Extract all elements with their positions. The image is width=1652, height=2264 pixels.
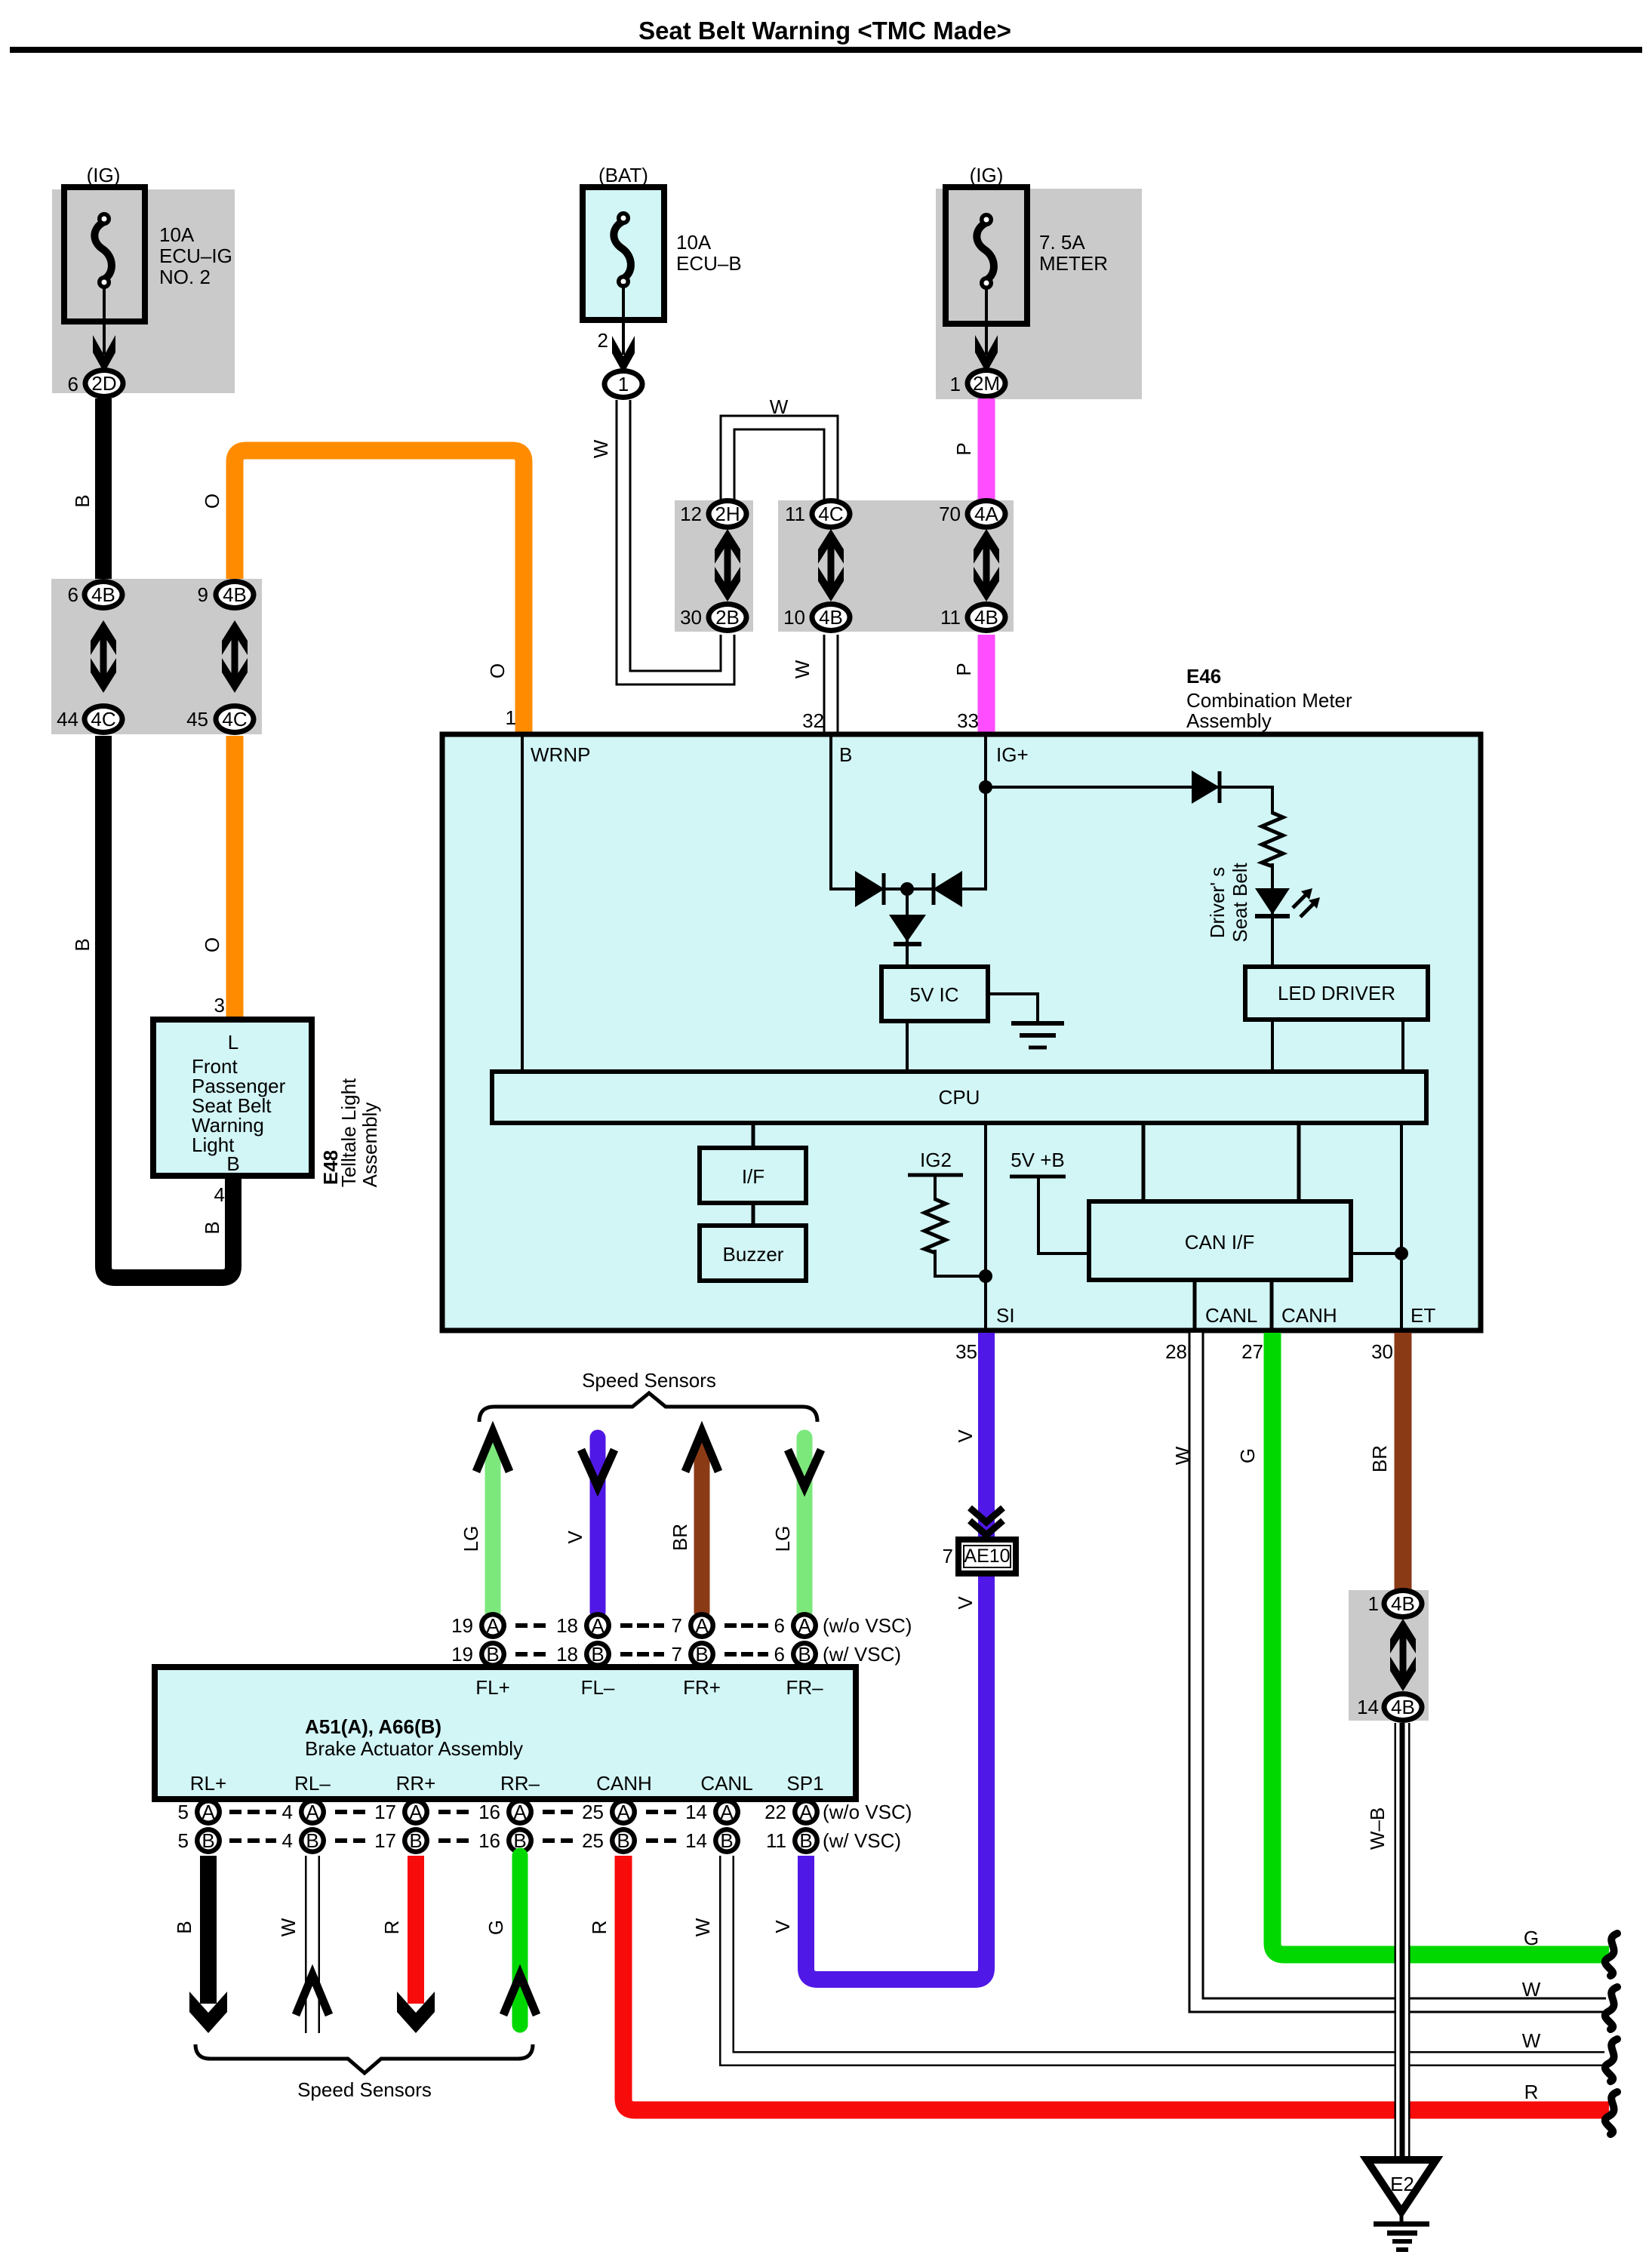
gray band connectors 4B/4C left (51, 579, 262, 734)
wire V from SI 35 down through AE10 to SP1 U-path (806, 1333, 986, 1979)
svg-text:3: 3 (214, 994, 225, 1017)
E46 Combination Meter Assembly box (442, 734, 1481, 1330)
svg-text:R: R (1524, 2081, 1539, 2103)
svg-text:B: B (173, 1921, 195, 1933)
svg-text:V: V (954, 1429, 977, 1443)
svg-text:32: 32 (802, 709, 824, 732)
fuse F2 10A ECU-B (583, 187, 664, 320)
connector AE10 pin 7 (943, 1540, 1016, 1573)
wire B internal (831, 737, 857, 889)
diode D1b (933, 871, 962, 907)
svg-text:5: 5 (178, 1801, 189, 1823)
connector 4C pin 45 (186, 703, 256, 735)
node ET junction (1395, 1247, 1408, 1260)
svg-text:12: 12 (680, 503, 702, 525)
svg-text:Buzzer: Buzzer (723, 1243, 784, 1266)
wire resistor to SI node (935, 1250, 986, 1276)
svg-text:W: W (589, 439, 612, 458)
junction arrows 4A-4B (974, 529, 999, 601)
svg-text:5V +B: 5V +B (1011, 1149, 1065, 1171)
svg-text:11: 11 (940, 606, 961, 629)
wire BR from pin 30 to 4B (1395, 1333, 1412, 1589)
svg-text:6: 6 (774, 1614, 785, 1637)
svg-text:R: R (588, 1921, 611, 1935)
svg-text:B: B (201, 1221, 223, 1234)
svg-text:LG: LG (460, 1526, 482, 1552)
fuse F1 10A ECU-IG NO.2 (64, 187, 145, 321)
svg-text:1: 1 (506, 706, 516, 729)
svg-text:BR: BR (1368, 1445, 1391, 1472)
diode D1a (855, 871, 884, 907)
fuse F3 7.5A METER (946, 187, 1027, 324)
5V+B supply bar (1010, 1175, 1066, 1179)
svg-text:(w/ VSC): (w/ VSC) (823, 1829, 901, 1852)
svg-text:2D: 2D (91, 372, 116, 395)
wire LED DRIVER to CPU left (1271, 1020, 1274, 1073)
svg-text:2M: 2M (973, 372, 1000, 395)
node IG+ junction (979, 780, 992, 794)
wire B from 4C-44 down to E48 loop (103, 736, 233, 1278)
svg-text:B: B (799, 1829, 812, 1852)
svg-text:I/F: I/F (742, 1165, 764, 1188)
IG2 supply bar (908, 1174, 963, 1177)
squiggle G end (1605, 1933, 1617, 1976)
wire B speed sensor RL+ (189, 1856, 227, 2033)
wire G from pin 27 to right edge (1272, 1333, 1609, 1955)
wire P from 4B-11 to pin 33 (978, 635, 995, 736)
svg-text:E46: E46 (1186, 665, 1221, 688)
svg-text:IG2: IG2 (920, 1149, 952, 1171)
svg-text:Speed Sensors: Speed Sensors (297, 2078, 432, 2101)
svg-text:V: V (954, 1596, 977, 1610)
svg-text:5V IC: 5V IC (909, 983, 958, 1006)
wire CPU to CAN I/F right (1297, 1123, 1301, 1203)
squiggle W1 end (1605, 1987, 1617, 2029)
svg-text:CPU: CPU (939, 1086, 980, 1109)
svg-text:10A: 10A (676, 231, 712, 254)
svg-text:Speed Sensors: Speed Sensors (582, 1369, 716, 1392)
svg-text:A: A (202, 1801, 215, 1823)
pin 22A (764, 1798, 820, 1826)
CPU box (492, 1072, 1426, 1123)
connector 2M pin 1 (950, 368, 1008, 399)
resistor R1 (1262, 813, 1283, 866)
pin 16B (478, 1827, 534, 1854)
pin 25A (582, 1798, 637, 1826)
zener diode D3 (889, 915, 926, 944)
svg-text:19: 19 (451, 1643, 473, 1666)
wire V speed sensor FL- (581, 1438, 614, 1612)
svg-text:FL+: FL+ (475, 1676, 510, 1699)
svg-text:(w/ VSC): (w/ VSC) (823, 1643, 901, 1666)
svg-text:ECU–B: ECU–B (676, 252, 742, 275)
wire W bridge 2H to 4C (728, 423, 831, 500)
I/F box (700, 1148, 806, 1203)
svg-text:LED DRIVER: LED DRIVER (1278, 982, 1395, 1004)
svg-text:Driver' s: Driver' s (1206, 867, 1229, 939)
svg-text:O: O (201, 494, 223, 509)
svg-text:19: 19 (451, 1614, 473, 1637)
svg-text:B: B (720, 1829, 733, 1852)
wire IG+ to diode D2 (986, 786, 1272, 789)
LED D4 (1255, 888, 1290, 916)
svg-text:4B: 4B (974, 606, 998, 629)
svg-text:P: P (952, 442, 975, 455)
svg-text:B: B (409, 1829, 422, 1852)
svg-text:E2: E2 (1390, 2173, 1414, 2195)
svg-text:4C: 4C (222, 708, 247, 731)
wire W from CANL 14B to right edge (727, 1856, 1604, 2059)
junction arrows 4B-4C right (222, 620, 248, 693)
svg-text:4B: 4B (223, 583, 247, 606)
svg-text:W: W (1171, 1446, 1194, 1465)
svg-text:6: 6 (68, 373, 78, 395)
svg-text:A: A (799, 1801, 813, 1823)
Brake Actuator Assembly box (155, 1667, 856, 1799)
svg-text:BR: BR (669, 1524, 691, 1551)
svg-text:B: B (202, 1829, 214, 1852)
svg-text:RL+: RL+ (190, 1772, 226, 1795)
svg-text:A: A (513, 1801, 527, 1823)
inline connector arrows into AE10 (970, 1508, 1003, 1535)
wire R from CANH 25B to right edge (623, 1856, 1609, 2110)
svg-text:1: 1 (618, 373, 629, 395)
svg-text:G: G (1236, 1448, 1259, 1463)
wire B from 2D to 4B (95, 398, 112, 581)
wire G speed sensor RR- (503, 1856, 537, 2025)
svg-text:CANH: CANH (1281, 1304, 1337, 1327)
svg-text:B: B (486, 1643, 499, 1666)
svg-text:25: 25 (582, 1829, 604, 1852)
wire LED DRIVER to CPU right (1401, 1020, 1404, 1073)
svg-text:CANL: CANL (700, 1772, 752, 1795)
svg-text:Seat Belt: Seat Belt (1229, 862, 1251, 942)
brace speed sensors bottom (195, 2044, 533, 2073)
squiggle W2 end (1605, 2039, 1617, 2081)
svg-text:14: 14 (1357, 1696, 1379, 1718)
connector 4B pin 14 (1357, 1691, 1424, 1723)
svg-text:27: 27 (1241, 1340, 1263, 1363)
svg-text:30: 30 (680, 606, 702, 629)
svg-text:4: 4 (282, 1801, 293, 1823)
wire R speed sensor RR+ (397, 1856, 435, 2033)
pin 7A (672, 1612, 715, 1639)
wire I/F to Buzzer (752, 1203, 755, 1227)
svg-text:4B: 4B (91, 583, 115, 606)
svg-text:2H: 2H (715, 503, 740, 525)
pin 4B (282, 1827, 326, 1854)
svg-text:9: 9 (198, 583, 208, 606)
svg-text:W: W (691, 1918, 714, 1936)
svg-text:B: B (591, 1643, 604, 1666)
pin 25B (582, 1827, 637, 1854)
connector 1 (602, 368, 645, 400)
wire IG2 to resistor (934, 1175, 937, 1201)
pin 14B (685, 1827, 740, 1854)
svg-text:A51(A), A66(B): A51(A), A66(B) (305, 1715, 441, 1738)
svg-text:B: B (71, 938, 94, 951)
svg-text:RR+: RR+ (396, 1772, 436, 1795)
squiggle R end (1605, 2092, 1617, 2134)
svg-text:Assembly: Assembly (358, 1103, 381, 1188)
junction arrows 4B-4C left (91, 620, 116, 693)
svg-text:A: A (720, 1801, 734, 1823)
wire diode row (857, 887, 986, 891)
svg-text:17: 17 (374, 1829, 396, 1852)
svg-text:P: P (952, 663, 975, 675)
svg-text:A: A (798, 1614, 811, 1637)
svg-text:18: 18 (556, 1614, 578, 1637)
wire W from pin 28 to right edge (1196, 1333, 1606, 2005)
svg-text:FR+: FR+ (683, 1676, 721, 1699)
wire W from BAT oval1 to 2B (623, 400, 728, 678)
svg-text:O: O (486, 663, 509, 678)
pin line CANH (1270, 1280, 1274, 1330)
svg-text:10A: 10A (159, 223, 195, 246)
resistor R2 IG2 (924, 1199, 946, 1253)
svg-text:6: 6 (774, 1643, 785, 1666)
svg-text:B: B (695, 1643, 708, 1666)
svg-text:A: A (591, 1614, 605, 1637)
wire zener to 5V IC (906, 889, 909, 968)
svg-text:Combination Meter: Combination Meter (1186, 689, 1352, 712)
svg-text:25: 25 (582, 1801, 604, 1823)
svg-text:W: W (770, 395, 789, 418)
svg-text:4B: 4B (819, 606, 843, 629)
svg-text:Assembly: Assembly (1186, 709, 1272, 732)
pin 6B (774, 1641, 818, 1668)
svg-text:(IG): (IG) (970, 164, 1004, 186)
svg-text:CAN I/F: CAN I/F (1185, 1231, 1254, 1254)
svg-text:17: 17 (374, 1801, 396, 1823)
svg-text:(w/o VSC): (w/o VSC) (823, 1614, 912, 1637)
svg-text:7: 7 (943, 1545, 953, 1567)
connector 4C pin 11 (785, 498, 853, 530)
LED light arrows (1293, 888, 1320, 917)
svg-text:METER: METER (1039, 252, 1108, 275)
svg-text:A: A (486, 1614, 500, 1637)
svg-text:G: G (485, 1920, 507, 1935)
svg-text:W–B: W–B (1366, 1807, 1389, 1850)
wire CPU to I/F (752, 1123, 755, 1149)
svg-text:10: 10 (783, 606, 805, 629)
svg-text:14: 14 (685, 1801, 707, 1823)
E48 Telltale Light Assembly box (153, 1020, 312, 1176)
svg-text:30: 30 (1371, 1340, 1393, 1363)
svg-text:7: 7 (672, 1643, 682, 1666)
pin 4A (282, 1798, 326, 1826)
connector 4B pin 10 (783, 601, 852, 633)
svg-text:W: W (791, 660, 814, 678)
wire CAN I/F to ET (1351, 1252, 1401, 1255)
wire W speed sensor RL- (296, 1856, 329, 2033)
ground 5V IC (1011, 1023, 1064, 1047)
svg-text:WRNP: WRNP (531, 743, 590, 766)
svg-text:33: 33 (957, 709, 979, 732)
node SI junction (979, 1269, 992, 1283)
svg-text:A: A (695, 1614, 709, 1637)
wire O from 4B-9 up over to E46 pin1 (235, 451, 524, 736)
wire W-B from 4B-14 to E2 (1395, 1723, 1411, 2160)
wire SI vertical (984, 1123, 987, 1330)
gray band connector 4B right (1349, 1590, 1429, 1721)
pin 14A (685, 1798, 740, 1826)
connector 2D pin 6 (68, 368, 126, 399)
svg-text:W: W (1522, 2029, 1541, 2052)
svg-text:B: B (306, 1829, 318, 1852)
svg-text:1: 1 (1368, 1592, 1379, 1615)
svg-text:B: B (71, 494, 94, 507)
pin 17A (374, 1798, 429, 1826)
diode D2 (1192, 771, 1220, 804)
svg-text:B: B (617, 1829, 629, 1852)
wire D2 to resistor corner (1220, 787, 1272, 814)
svg-text:2: 2 (598, 329, 608, 352)
svg-text:45: 45 (186, 708, 208, 731)
svg-text:ECU–IG: ECU–IG (159, 245, 232, 267)
svg-text:LG: LG (771, 1526, 794, 1552)
dashes top row B (515, 1652, 768, 1656)
wire LG speed sensor FR- (788, 1438, 821, 1612)
wire 5V+B to CAN I/F (1038, 1177, 1091, 1254)
svg-text:(BAT): (BAT) (598, 164, 648, 186)
svg-text:4A: 4A (974, 503, 998, 525)
pin circles row A top (451, 1612, 506, 1639)
junction arrows 2H-2B (715, 529, 740, 601)
gray block ECU-IG fuse area (52, 189, 235, 393)
pin line CANL (1193, 1280, 1197, 1330)
wire W from 4B-10 to pin 32 (823, 635, 839, 736)
svg-text:A: A (409, 1801, 423, 1823)
connector 4B pin 9 (198, 579, 257, 611)
5V IC box (881, 967, 988, 1021)
LED DRIVER box (1245, 967, 1428, 1020)
wire fuse F3 to 2M with arrow (975, 287, 998, 373)
svg-text:4: 4 (282, 1829, 293, 1852)
dashes top row A (515, 1623, 768, 1628)
svg-text:4B: 4B (1391, 1696, 1415, 1718)
svg-text:A: A (306, 1801, 319, 1823)
svg-text:(IG): (IG) (87, 164, 121, 186)
svg-text:2B: 2B (715, 606, 740, 629)
svg-text:35: 35 (955, 1340, 977, 1363)
svg-text:R: R (380, 1921, 403, 1935)
header rule (10, 47, 1642, 53)
svg-text:FR–: FR– (786, 1676, 823, 1699)
pin 5A (178, 1798, 222, 1826)
svg-text:11: 11 (766, 1829, 786, 1852)
svg-text:11: 11 (785, 503, 805, 525)
connector 2H pin 12 (680, 498, 749, 530)
wire O from 4C-45 down to E48 (226, 736, 244, 1017)
ground E2 (1367, 2160, 1436, 2250)
svg-text:Seat Belt Warning <TMC Made>: Seat Belt Warning <TMC Made> (638, 17, 1011, 45)
svg-text:CANH: CANH (596, 1772, 652, 1795)
wire CPU to CAN I/F left (1142, 1123, 1146, 1203)
svg-text:4C: 4C (818, 503, 843, 525)
svg-text:NO. 2: NO. 2 (159, 266, 211, 288)
svg-text:7. 5A: 7. 5A (1039, 231, 1085, 254)
gray block METER fuse area (936, 189, 1142, 399)
svg-text:W: W (1522, 1978, 1541, 2001)
CAN I/F box (1089, 1201, 1351, 1280)
connector 4B pin 1 (1368, 1588, 1425, 1620)
pin 18B (556, 1641, 611, 1668)
pin 17B (374, 1827, 429, 1854)
svg-text:28: 28 (1165, 1340, 1187, 1363)
pin 11B (766, 1827, 820, 1854)
svg-text:L: L (228, 1031, 238, 1054)
gray band connectors 2H/2B (675, 500, 753, 632)
svg-text:22: 22 (764, 1801, 786, 1823)
svg-text:4: 4 (214, 1183, 225, 1206)
svg-text:ET: ET (1411, 1304, 1435, 1327)
svg-text:IG+: IG+ (996, 743, 1029, 766)
svg-text:6: 6 (68, 583, 78, 606)
svg-text:18: 18 (556, 1643, 578, 1666)
svg-text:G: G (1524, 1927, 1539, 1949)
pin 6A (774, 1612, 818, 1639)
dashes bottom row B (229, 1838, 676, 1843)
wire IG+ internal (984, 737, 987, 891)
svg-text:B: B (839, 743, 852, 766)
junction arrows 4B-4B (1390, 1619, 1416, 1691)
connector 4B pin 6 (68, 579, 125, 611)
wire LG speed sensor FL+ (476, 1432, 509, 1612)
connector 4B pin 11 (940, 601, 1008, 633)
pin 19B (451, 1641, 506, 1668)
brace speed sensors top (479, 1393, 817, 1422)
node diode junction (900, 882, 914, 896)
svg-text:V: V (771, 1920, 794, 1933)
svg-text:16: 16 (478, 1829, 500, 1852)
svg-text:4C: 4C (91, 708, 115, 731)
wire fuse F2 pin 2 to oval 1 (598, 284, 635, 374)
pin 18A (556, 1612, 611, 1639)
svg-text:A: A (617, 1801, 630, 1823)
wire ET vertical (1400, 1123, 1403, 1330)
pin 5B (178, 1827, 222, 1854)
svg-text:SP1: SP1 (786, 1772, 823, 1795)
dashes bottom row A (229, 1810, 676, 1814)
svg-text:Brake Actuator Assembly: Brake Actuator Assembly (305, 1737, 523, 1760)
wire fuse F1 to 2D with arrow (93, 285, 115, 373)
wire BR speed sensor FR+ (685, 1432, 718, 1612)
gray band connectors 4C/4B 4A/4B (778, 500, 1014, 632)
svg-text:Telltale Light: Telltale Light (337, 1078, 360, 1187)
svg-text:B: B (226, 1152, 239, 1175)
pin 16A (478, 1798, 534, 1826)
svg-text:B: B (798, 1643, 811, 1666)
svg-text:5: 5 (178, 1829, 189, 1852)
Buzzer box (700, 1226, 806, 1281)
pin 7B (672, 1641, 715, 1668)
svg-text:CANL: CANL (1205, 1304, 1257, 1327)
svg-text:FL–: FL– (581, 1676, 615, 1699)
svg-text:RR–: RR– (500, 1772, 540, 1795)
svg-text:SI: SI (996, 1304, 1015, 1327)
svg-text:O: O (201, 937, 223, 952)
wire WRNP internal (521, 737, 524, 1073)
svg-text:RL–: RL– (294, 1772, 331, 1795)
svg-text:V: V (564, 1530, 586, 1544)
svg-text:44: 44 (57, 708, 78, 731)
svg-text:4B: 4B (1391, 1592, 1415, 1615)
svg-text:7: 7 (672, 1614, 682, 1637)
svg-text:14: 14 (685, 1829, 707, 1852)
wire P from 2M to 4A (978, 398, 995, 500)
svg-text:16: 16 (478, 1801, 500, 1823)
